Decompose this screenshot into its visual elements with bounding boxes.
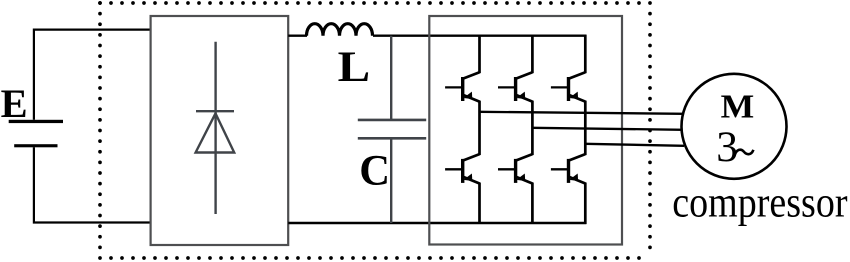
wire Q6 emitter to bottom bus bbox=[584, 183, 587, 225]
wire inductor to inverter top bus bbox=[373, 35, 586, 37]
battery E bottom plate (short) bbox=[14, 144, 57, 147]
svg-text:E: E bbox=[1, 81, 28, 126]
rectifier box bbox=[151, 16, 289, 245]
wire phase column 2 (top emitter to bottom collector) bbox=[531, 101, 534, 156]
svg-text:3: 3 bbox=[716, 123, 738, 171]
inverter box bbox=[429, 16, 622, 245]
capacitor C top lead bbox=[390, 36, 392, 120]
transistor Q3 (top row) bbox=[551, 72, 585, 101]
wire phase line 2 to motor bbox=[532, 128, 684, 130]
capacitor C bottom plate bbox=[358, 137, 426, 140]
wire phase line 3 to motor bbox=[585, 144, 684, 146]
wire Q3 collector to top bus bbox=[584, 35, 587, 73]
transistor Q5 (bottom row) bbox=[498, 154, 532, 183]
wire rectifier to inductor (top) bbox=[288, 35, 307, 37]
diode D1 triangle bbox=[196, 113, 235, 152]
capacitor C top plate bbox=[358, 119, 426, 122]
battery E top plate (long) bbox=[9, 120, 63, 123]
wire bottom dc bus bbox=[288, 222, 586, 224]
wire phase line 1 to motor bbox=[480, 112, 685, 114]
svg-text:C: C bbox=[359, 148, 390, 195]
capacitor C bottom lead bbox=[390, 138, 392, 223]
dotted enclosure border (bottom) bbox=[100, 256, 650, 260]
dotted enclosure border (left) bbox=[98, 3, 102, 258]
wire battery bottom lead bbox=[34, 147, 151, 222]
svg-text:compressor: compressor bbox=[672, 179, 848, 227]
diode D1 lead bbox=[214, 42, 216, 214]
wire Q4 emitter to bottom bus bbox=[478, 183, 481, 225]
svg-text:M: M bbox=[721, 87, 755, 125]
transistor Q1 (top row) bbox=[445, 72, 479, 101]
wire Q1 collector to top bus bbox=[478, 35, 481, 73]
wire Q5 emitter to bottom bus bbox=[531, 183, 534, 225]
svg-text:L: L bbox=[338, 43, 371, 91]
motor 3-phase tilde bbox=[735, 150, 754, 156]
wire Q2 collector to top bus bbox=[531, 35, 534, 73]
transistor Q2 (top row) bbox=[498, 72, 532, 101]
wire battery top lead bbox=[34, 30, 151, 120]
motor M circle bbox=[682, 74, 787, 179]
dotted enclosure border (right) bbox=[648, 3, 652, 258]
wire phase column 1 (top emitter to bottom collector) bbox=[478, 101, 481, 156]
transistor Q4 (bottom row) bbox=[445, 154, 479, 183]
transistor Q6 (bottom row) bbox=[551, 154, 585, 183]
inductor L coil bbox=[307, 24, 373, 36]
wire phase column 3 (top emitter to bottom collector) bbox=[584, 101, 587, 156]
dotted enclosure border (top) bbox=[100, 1, 650, 5]
diode D1 cathode bar bbox=[196, 110, 234, 112]
